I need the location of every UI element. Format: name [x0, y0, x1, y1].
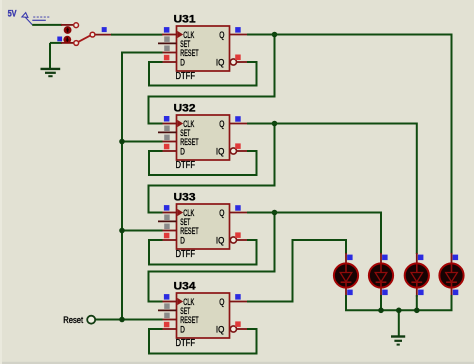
logic state squares LED D1: [347, 255, 353, 296]
wire RESET U33 branch: [122, 230, 163, 232]
D flip-flop U31: [174, 13, 230, 81]
LED D4: [439, 253, 463, 297]
junction RESET U34: [119, 317, 125, 323]
svg-text:RESET: RESET: [180, 226, 199, 236]
D flip-flop U34: [174, 280, 230, 348]
junction Q U33: [272, 210, 278, 216]
pin Q U33: [230, 212, 248, 214]
svg-text:RESET: RESET: [180, 137, 199, 147]
svg-text:Reset: Reset: [63, 315, 83, 325]
pin CLK U34: [162, 301, 177, 303]
wire Q U34 to LED D1: [247, 240, 346, 302]
svg-text:Q: Q: [219, 297, 224, 307]
svg-text:D: D: [180, 58, 185, 68]
pin D U33: [162, 239, 177, 241]
svg-text:RESET: RESET: [180, 48, 199, 58]
svg-text:IQ: IQ: [216, 236, 225, 246]
svg-text:Q: Q: [219, 208, 224, 218]
wire IQ-D feedback loop U33: [149, 240, 257, 265]
switch toggle button down: [63, 36, 71, 44]
svg-text:DTFF: DTFF: [176, 338, 196, 349]
svg-text:RESET: RESET: [180, 315, 199, 325]
svg-text:D: D: [180, 325, 185, 335]
pin IQ U32 (inverted): [230, 148, 247, 154]
wire IQ-D feedback loop U31: [149, 62, 257, 86]
pin IQ U34 (inverted): [230, 326, 247, 332]
wire Q U31 to CLK U32: [149, 35, 275, 124]
svg-text:D: D: [180, 147, 185, 157]
logic state squares LED D2: [382, 255, 388, 296]
svg-text:IQ: IQ: [216, 147, 225, 157]
power label dashes: [33, 16, 49, 18]
wire ground stem: [398, 310, 400, 336]
svg-text:Q: Q: [219, 30, 224, 40]
logic state squares LED D4: [453, 255, 459, 296]
pin D U31: [162, 61, 177, 63]
logic state square (switch throw): [57, 37, 62, 42]
wire RESET U32 branch: [122, 141, 163, 143]
pin IQ U31 (inverted): [230, 59, 247, 65]
svg-text:D: D: [180, 236, 185, 246]
svg-text:DTFF: DTFF: [176, 160, 196, 171]
decorative edge (not labelled component): [0, 362, 474, 364]
pin SET U32: [158, 131, 177, 133]
wire LED D3 cathode: [416, 295, 418, 310]
wire switch bottom throw to ground: [50, 42, 62, 44]
pin switch bottom throw: [61, 42, 74, 44]
pin RESET U33: [162, 230, 177, 232]
ground (LED bus): [391, 337, 405, 345]
wire Q U33 to LED D2: [247, 213, 381, 255]
wire switch pole to U31 CLK: [111, 34, 163, 36]
pin Q U32: [230, 123, 248, 125]
switch SW1 (SPDT): [74, 23, 95, 46]
svg-text:U33: U33: [174, 191, 196, 203]
pin switch pole: [95, 34, 112, 36]
wire 5V to switch top throw: [32, 24, 62, 26]
junction Q U32: [272, 121, 278, 127]
pin CLK U31: [162, 34, 177, 36]
wire Q U32 to LED D3: [247, 124, 417, 255]
wire IQ-D feedback loop U34: [149, 329, 257, 354]
pin SET U33: [158, 220, 177, 222]
pin Q U34: [230, 301, 248, 303]
junction RESET U33: [119, 228, 125, 234]
pin RESET U34: [162, 319, 177, 321]
wire Reset terminal to RESET U34: [96, 319, 163, 321]
terminal Reset: [63, 315, 95, 325]
switch toggle button up: [64, 26, 72, 34]
power terminal 5V: [8, 8, 46, 24]
logic state squares LED D3: [418, 255, 424, 296]
wire LED D2 cathode: [380, 295, 382, 310]
svg-text:IQ: IQ: [216, 325, 225, 335]
logic state squares U32: [164, 116, 241, 149]
pin SET U31: [158, 42, 177, 44]
wire Q U33 to CLK U34: [149, 213, 275, 302]
logic state square (switch pole): [102, 27, 107, 32]
ground (switch): [41, 69, 61, 76]
svg-text:U31: U31: [174, 13, 196, 25]
junction ground stem: [396, 308, 402, 314]
LED D1: [334, 253, 358, 297]
D flip-flop U32: [174, 102, 230, 170]
logic state squares U31: [164, 27, 241, 60]
wire RESET bus vertical: [122, 53, 163, 320]
pin CLK U32: [162, 123, 177, 125]
wire Q U32 to CLK U33: [149, 124, 275, 213]
svg-text:5V: 5V: [8, 8, 17, 18]
pin RESET U31: [162, 52, 177, 54]
wire Q U31 to LED D4: [247, 35, 452, 255]
logic state squares U34: [164, 294, 241, 327]
D flip-flop U33: [174, 191, 230, 259]
junction RESET U32: [119, 139, 125, 145]
junction Q U31: [272, 32, 278, 38]
logic state squares U33: [164, 205, 241, 238]
pin RESET U32: [162, 141, 177, 143]
pin CLK U33: [162, 212, 177, 214]
svg-text:DTFF: DTFF: [176, 249, 196, 260]
pin D U32: [162, 150, 177, 152]
pin Q U31: [230, 34, 248, 36]
pin switch top throw: [61, 24, 73, 26]
pin D U34: [162, 328, 177, 330]
svg-text:U34: U34: [174, 280, 197, 292]
svg-text:U32: U32: [174, 102, 196, 114]
wire ground riser: [49, 43, 51, 68]
pin IQ U33 (inverted): [230, 237, 247, 243]
LED D2: [369, 253, 393, 297]
junction LED D3 cathode: [414, 308, 420, 314]
svg-text:Q: Q: [219, 119, 224, 129]
wire IQ-D feedback loop U32: [149, 151, 257, 175]
pin SET U34: [158, 309, 177, 311]
svg-text:DTFF: DTFF: [176, 71, 196, 82]
svg-text:IQ: IQ: [216, 58, 225, 68]
LED D3: [405, 253, 429, 297]
junction LED D2 cathode: [378, 308, 384, 314]
wire LED cathode bus: [346, 295, 452, 310]
